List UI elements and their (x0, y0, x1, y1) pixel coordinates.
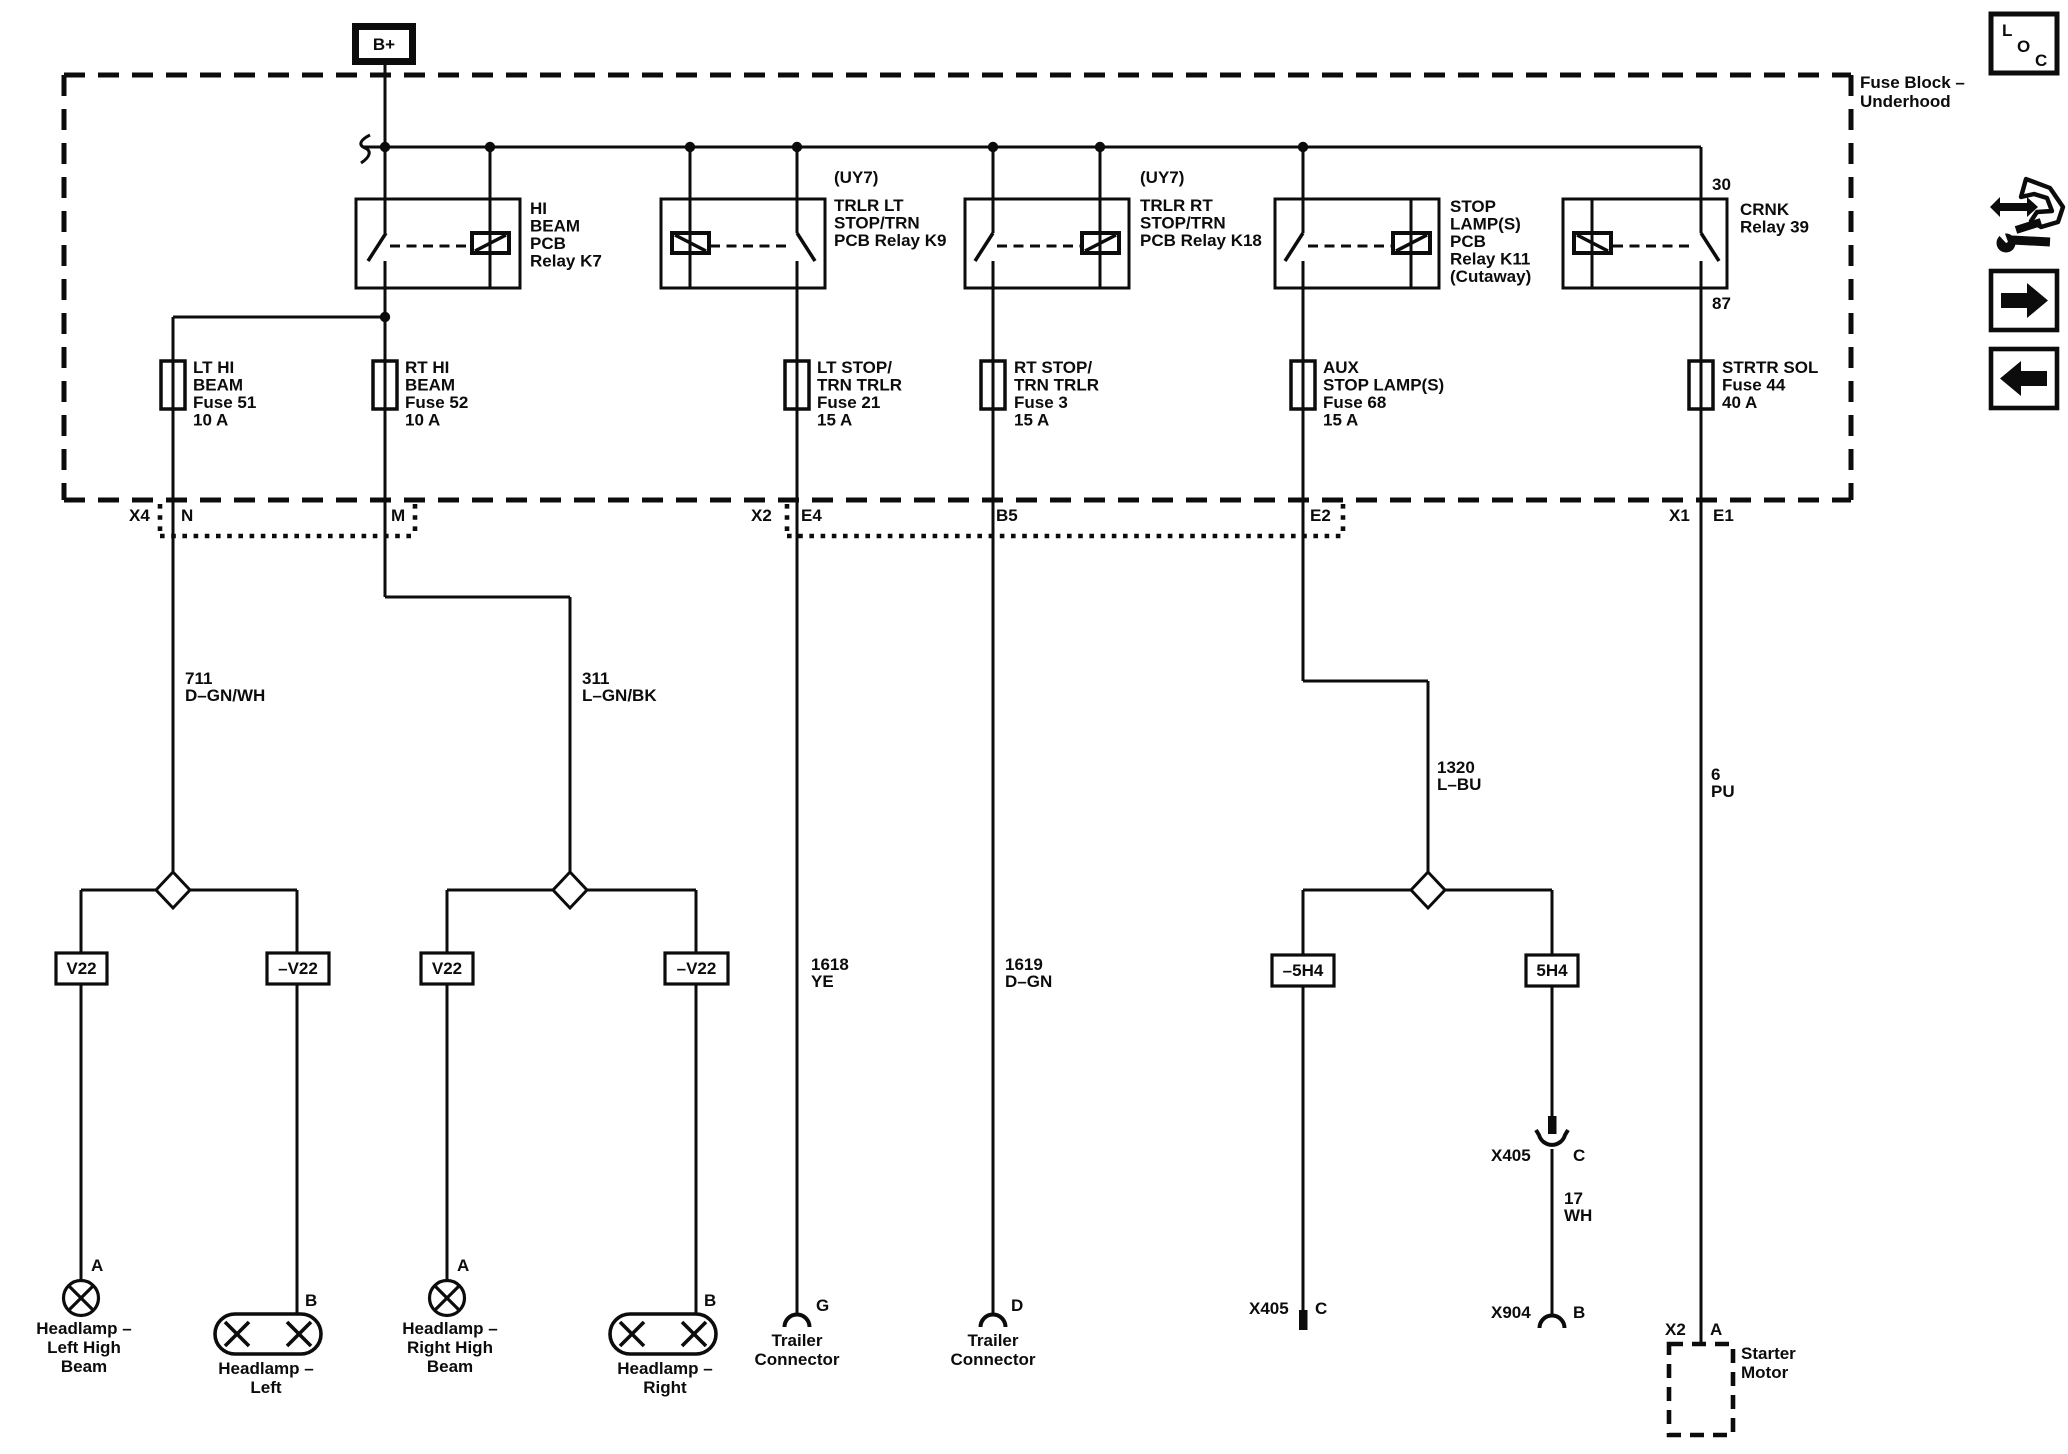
svg-text:PU: PU (1711, 782, 1735, 801)
junction dot K18 switch (988, 142, 998, 152)
svg-text:–V22: –V22 (677, 959, 717, 978)
svg-text:87: 87 (1712, 294, 1731, 313)
svg-text:TRLR LT: TRLR LT (834, 196, 904, 215)
svg-text:X904: X904 (1491, 1303, 1531, 1322)
svg-text:Relay 39: Relay 39 (1740, 218, 1809, 237)
svg-text:C: C (1315, 1299, 1327, 1318)
terminal V22 right (421, 953, 473, 984)
inline connector X405 C female cup (1536, 1130, 1568, 1145)
svg-text:X4: X4 (129, 506, 150, 525)
fuse F52 RT HI BEAM 10A (373, 361, 397, 409)
fuse F44 STRTR SOL 40A (1689, 361, 1713, 409)
wire V22 to left high beam lamp (80, 984, 83, 1281)
starter motor label (1741, 1344, 1796, 1382)
svg-text:Fuse 3: Fuse 3 (1014, 393, 1068, 412)
relay 39 label (1740, 200, 1809, 237)
svg-text:AUX: AUX (1323, 358, 1360, 377)
relay K9 label (834, 168, 946, 250)
fuse F68 label (1323, 358, 1444, 430)
wire V22 to right high beam lamp (446, 984, 449, 1281)
wire K7 switch down (384, 261, 387, 597)
connector X904 B arc (1540, 1316, 1565, 1329)
fuse F21 LT STOP/TRN TRLR 15A (785, 361, 809, 409)
svg-text:Fuse 52: Fuse 52 (405, 393, 468, 412)
fuse F51 label (193, 358, 256, 430)
svg-text:LT STOP/: LT STOP/ (817, 358, 892, 377)
relay K18 label (1140, 168, 1262, 250)
svg-text:Fuse 51: Fuse 51 (193, 393, 256, 412)
junction dot K9 coil (685, 142, 695, 152)
svg-text:BEAM: BEAM (530, 217, 580, 236)
svg-text:Fuse 21: Fuse 21 (817, 393, 880, 412)
junction dot fuse51 branch (380, 312, 390, 322)
svg-text:N: N (181, 506, 193, 525)
wire 1320 label (1437, 758, 1481, 794)
svg-text:BEAM: BEAM (193, 376, 243, 395)
forward arrow box (1991, 271, 2057, 330)
svg-text:–V22: –V22 (278, 959, 318, 978)
fuse F44 label (1722, 358, 1818, 412)
svg-text:Headlamp –: Headlamp – (36, 1319, 131, 1338)
connector X405 C terminal stub (1299, 1310, 1308, 1330)
svg-text:L–GN/BK: L–GN/BK (582, 686, 657, 705)
wire 17 WH (1551, 1149, 1554, 1314)
svg-text:Headlamp –: Headlamp – (617, 1359, 712, 1378)
svg-text:LAMP(S): LAMP(S) (1450, 215, 1521, 234)
svg-text:15 A: 15 A (1323, 411, 1358, 430)
fuse F21 label (817, 358, 902, 430)
trailer connector D arc (981, 1315, 1006, 1328)
svg-text:Beam: Beam (61, 1357, 107, 1376)
terminal -5H4 (1272, 955, 1334, 986)
lamp headlamp right high beam (430, 1281, 465, 1316)
svg-text:Motor: Motor (1741, 1363, 1789, 1382)
svg-text:15 A: 15 A (1014, 411, 1049, 430)
wire -V22 to headlamp left (296, 984, 299, 1314)
svg-text:RT STOP/: RT STOP/ (1014, 358, 1092, 377)
lamp headlamp right (dual filament) (610, 1314, 716, 1354)
svg-text:X2: X2 (1665, 1320, 1686, 1339)
svg-text:YE: YE (811, 972, 834, 991)
svg-text:PCB Relay K9: PCB Relay K9 (834, 231, 946, 250)
wire 1619 label (1005, 955, 1052, 991)
svg-text:WH: WH (1564, 1206, 1592, 1225)
svg-text:30: 30 (1712, 175, 1731, 194)
terminal -V22 right (665, 953, 728, 984)
svg-text:STRTR SOL: STRTR SOL (1722, 358, 1818, 377)
headlamp left high beam label (36, 1319, 131, 1376)
svg-text:D–GN/WH: D–GN/WH (185, 686, 265, 705)
terminal V22 left (56, 953, 107, 984)
svg-text:Headlamp –: Headlamp – (218, 1359, 313, 1378)
wire relay39 switch down to starter (1700, 261, 1703, 1344)
svg-text:Trailer: Trailer (771, 1331, 822, 1350)
svg-text:E1: E1 (1713, 506, 1734, 525)
junction dot K11 switch (1298, 142, 1308, 152)
svg-text:C: C (1573, 1146, 1585, 1165)
svg-text:5H4: 5H4 (1536, 961, 1568, 980)
junction dot K9 switch (792, 142, 802, 152)
splice S2 branches (447, 890, 696, 953)
svg-text:TRLR RT: TRLR RT (1140, 196, 1213, 215)
svg-text:–5H4: –5H4 (1283, 961, 1324, 980)
svg-text:Right High: Right High (407, 1338, 493, 1357)
svg-text:C: C (2035, 51, 2047, 70)
svg-text:L–BU: L–BU (1437, 775, 1481, 794)
connector X2 dotted box (787, 504, 1343, 536)
splice S2 diamond (553, 872, 587, 908)
svg-text:(Cutaway): (Cutaway) (1450, 267, 1531, 286)
connector X4 dotted box (160, 504, 415, 536)
svg-text:O: O (2017, 37, 2030, 56)
trailer connector G label (755, 1331, 840, 1369)
svg-text:STOP LAMP(S): STOP LAMP(S) (1323, 376, 1444, 395)
fuse F3 RT STOP/TRN TRLR 15A (981, 361, 1005, 409)
wire 17 WH label (1564, 1189, 1592, 1225)
svg-text:B: B (305, 1291, 317, 1310)
relay K18 TRLR RT STOP/TRN PCB (965, 147, 1129, 288)
svg-text:B5: B5 (996, 506, 1018, 525)
svg-text:Trailer: Trailer (967, 1331, 1018, 1350)
svg-text:A: A (91, 1256, 103, 1275)
relay K11 label (1450, 197, 1531, 286)
junction dot bus/B+ (380, 142, 390, 152)
svg-text:STOP/TRN: STOP/TRN (1140, 214, 1226, 233)
relay 39 CRNK (1563, 147, 1727, 288)
trailer connector G arc (785, 1315, 810, 1328)
svg-text:Relay K11: Relay K11 (1450, 250, 1530, 269)
svg-text:Fuse Block –: Fuse Block – (1860, 73, 1965, 92)
svg-text:D–GN: D–GN (1005, 972, 1052, 991)
svg-text:Connector: Connector (755, 1350, 840, 1369)
svg-text:CRNK: CRNK (1740, 200, 1790, 219)
svg-text:B: B (704, 1291, 716, 1310)
starter motor dashed box (1669, 1344, 1733, 1435)
svg-text:B: B (1573, 1303, 1585, 1322)
connector X405 C labels (1249, 1299, 1327, 1318)
inline connector X405 C male stub (1548, 1116, 1557, 1134)
fuse F3 label (1014, 358, 1099, 430)
svg-text:V22: V22 (66, 959, 96, 978)
svg-text:(UY7): (UY7) (834, 168, 878, 187)
terminal 5H4 (1526, 955, 1578, 986)
svg-text:A: A (457, 1256, 469, 1275)
fuse block label (1860, 73, 1965, 111)
svg-text:G: G (816, 1296, 829, 1315)
terminal -V22 left (267, 953, 329, 984)
svg-text:STOP/TRN: STOP/TRN (834, 214, 920, 233)
svg-text:10 A: 10 A (193, 411, 228, 430)
connector X2 A labels at starter (1665, 1320, 1722, 1339)
svg-text:STOP: STOP (1450, 197, 1496, 216)
wire 6 PU label (1711, 765, 1735, 801)
svg-text:RT HI: RT HI (405, 358, 449, 377)
lamp headlamp left (dual filament) (215, 1314, 321, 1354)
svg-text:10 A: 10 A (405, 411, 440, 430)
svg-text:A: A (1710, 1320, 1722, 1339)
power symbol B+ (356, 27, 413, 62)
wire M jog (385, 596, 570, 599)
svg-text:PCB: PCB (1450, 232, 1486, 251)
svg-text:Left: Left (250, 1378, 282, 1397)
wire B+ to bus (384, 64, 387, 233)
svg-text:E2: E2 (1310, 506, 1331, 525)
wire K11 switch down (1302, 261, 1305, 681)
splice S3 branches (1303, 890, 1552, 955)
svg-text:Relay K7: Relay K7 (530, 252, 602, 271)
svg-text:Beam: Beam (427, 1357, 473, 1376)
svg-text:Starter: Starter (1741, 1344, 1796, 1363)
relay K9 TRLR LT STOP/TRN PCB (661, 147, 825, 288)
junction dot K7 coil (485, 142, 495, 152)
wire 711 label (185, 669, 265, 705)
svg-text:L: L (2002, 21, 2012, 40)
svg-text:Connector: Connector (951, 1350, 1036, 1369)
svg-text:HI: HI (530, 199, 547, 218)
wire K9 switch down to trailer connector (796, 261, 799, 1315)
headlamp left label (218, 1359, 313, 1397)
wire 311 label (582, 669, 657, 705)
svg-text:V22: V22 (432, 959, 462, 978)
svg-text:M: M (391, 506, 405, 525)
wire K18 switch down to trailer connector (992, 261, 995, 1315)
wire 5H4 down (1551, 986, 1554, 1117)
svg-text:PCB: PCB (530, 234, 566, 253)
svg-text:(UY7): (UY7) (1140, 168, 1184, 187)
relay K11 STOP LAMP(S) PCB (1275, 147, 1439, 288)
svg-text:PCB Relay K18: PCB Relay K18 (1140, 231, 1262, 250)
connector X904 labels (1491, 1303, 1585, 1322)
junction dot K18 coil (1095, 142, 1105, 152)
svg-text:Fuse 68: Fuse 68 (1323, 393, 1386, 412)
svg-text:X405: X405 (1491, 1146, 1531, 1165)
svg-text:LT HI: LT HI (193, 358, 234, 377)
bus wire B+ feed (363, 146, 1701, 149)
svg-text:X1: X1 (1669, 506, 1690, 525)
svg-text:B+: B+ (373, 35, 395, 54)
relay K7 HI BEAM PCB (356, 147, 520, 288)
back arrow box (1991, 349, 2057, 408)
wire 1320 jog (1303, 680, 1428, 683)
splice S1 branches (81, 890, 297, 953)
wire -V22 to headlamp right (695, 984, 698, 1314)
svg-text:E4: E4 (801, 506, 822, 525)
svg-text:Headlamp –: Headlamp – (402, 1319, 497, 1338)
splice S3 diamond (1411, 872, 1445, 908)
svg-text:15 A: 15 A (817, 411, 852, 430)
service info icon (1990, 179, 2063, 253)
svg-text:40 A: 40 A (1722, 393, 1757, 412)
splice S1 diamond (156, 872, 190, 908)
fuse block underhood dashed border (64, 75, 1851, 500)
wire branch to fuse 51 (173, 316, 385, 319)
wire -5H4 down (1302, 986, 1305, 1311)
fuse F68 AUX STOP LAMP(S) 15A (1291, 361, 1315, 409)
svg-text:TRN TRLR: TRN TRLR (817, 376, 902, 395)
svg-text:Underhood: Underhood (1860, 92, 1951, 111)
fuse F52 label (405, 358, 468, 430)
trailer connector D label (951, 1331, 1036, 1369)
svg-text:X2: X2 (751, 506, 772, 525)
svg-text:TRN TRLR: TRN TRLR (1014, 376, 1099, 395)
headlamp right label (617, 1359, 712, 1397)
svg-text:D: D (1011, 1296, 1023, 1315)
svg-text:Right: Right (643, 1378, 687, 1397)
relay K7 label (530, 199, 602, 271)
fuse F51 LT HI BEAM 10A (161, 361, 185, 409)
LOC legend box (1991, 14, 2057, 73)
svg-text:Fuse 44: Fuse 44 (1722, 376, 1786, 395)
svg-text:BEAM: BEAM (405, 376, 455, 395)
inline connector X405 labels (1491, 1146, 1585, 1165)
svg-text:X405: X405 (1249, 1299, 1289, 1318)
lamp headlamp left high beam (64, 1281, 99, 1316)
svg-text:Left High: Left High (47, 1338, 121, 1357)
wire 1618 label (811, 955, 849, 991)
wire continuation squiggle at bus start (361, 135, 370, 163)
headlamp right high beam label (402, 1319, 497, 1376)
